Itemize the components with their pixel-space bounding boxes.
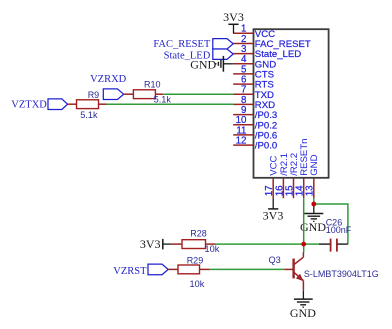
pin 12 /P0.0	[233, 136, 277, 152]
port FAC_RESET	[153, 39, 233, 51]
pin 14 RESETn	[295, 138, 311, 198]
svg-text:5.1k: 5.1k	[154, 95, 172, 105]
svg-text:10k: 10k	[190, 279, 205, 289]
capacitor C26	[304, 217, 352, 251]
ground GND (pin 13)	[300, 204, 326, 234]
wire node to C26 right side	[314, 204, 348, 244]
svg-text:R28: R28	[190, 229, 207, 239]
svg-text:VZTXD: VZTXD	[11, 99, 47, 110]
wire pin 13 to node	[313, 198, 315, 204]
pin 13 GND	[305, 154, 321, 198]
junction node RESETn	[301, 242, 306, 247]
svg-text:5.1k: 5.1k	[80, 110, 98, 120]
power 3V3 top	[223, 10, 244, 34]
power 3V3 (R28)	[140, 237, 172, 251]
pin 5 CTS	[233, 64, 274, 80]
wire R29 to Q3 base	[210, 268, 284, 270]
pin 17 VCC	[264, 155, 280, 198]
pin 10 /P0.2	[233, 115, 277, 131]
transistor Q3	[269, 244, 379, 291]
svg-text:S-LMBT3904LT1G: S-LMBT3904LT1G	[304, 269, 379, 279]
svg-text:3V3: 3V3	[263, 209, 284, 223]
junction node pin13/C26/GND	[311, 202, 316, 207]
pin 15 /R2.2	[284, 153, 300, 198]
ground GND (Q3 emitter)	[290, 291, 316, 320]
svg-text:13: 13	[305, 185, 316, 196]
pin 7 TXD	[233, 85, 274, 101]
svg-text:GND: GND	[190, 57, 216, 71]
pin 9 /P0.3	[233, 105, 277, 121]
pin 2 FAC_RESET	[233, 34, 311, 50]
port VZRST	[113, 264, 168, 277]
pin 1 VCC	[233, 24, 275, 40]
svg-text:GND: GND	[309, 154, 320, 175]
svg-text:Q3: Q3	[269, 255, 281, 265]
svg-text:3V3: 3V3	[223, 10, 244, 24]
svg-text:R10: R10	[144, 79, 161, 89]
wire R9 to pin 8	[107, 103, 234, 105]
svg-text:/P0.0: /P0.0	[255, 141, 277, 152]
resistor R29	[168, 255, 210, 288]
svg-text:10k: 10k	[205, 244, 220, 254]
port VZRXD	[90, 74, 127, 100]
svg-text:VZRST: VZRST	[113, 266, 147, 277]
wire pin 14 / RESETn net	[303, 198, 305, 244]
pin 6 RTS	[233, 75, 274, 91]
pin 16 /R2.1	[274, 153, 290, 198]
svg-text:3V3: 3V3	[140, 237, 161, 251]
svg-text:R9: R9	[88, 90, 100, 100]
svg-text:R29: R29	[187, 255, 204, 265]
resistor R10	[124, 79, 172, 104]
svg-text:GND: GND	[290, 306, 316, 320]
svg-text:100nF: 100nF	[326, 225, 352, 235]
svg-text:12: 12	[236, 136, 247, 147]
pin 3 State_LED	[233, 44, 301, 60]
ground GND (pin 4)	[190, 56, 233, 72]
svg-text:FAC_RESET: FAC_RESET	[153, 39, 211, 50]
power 3V3 (pin 17)	[263, 198, 284, 222]
pin 8 RXD	[233, 95, 275, 111]
wire R28 to RESETn node	[216, 243, 304, 245]
wire R10 to pin 7	[163, 93, 233, 95]
IC U1 body	[254, 29, 329, 178]
pin 4 GND	[233, 54, 276, 70]
port VZTXD	[11, 99, 67, 111]
pin 11 /P0.6	[233, 125, 277, 141]
resistor R9	[68, 90, 107, 120]
resistor R28	[172, 229, 220, 254]
port State_LED	[164, 49, 234, 61]
svg-text:VZRXD: VZRXD	[90, 74, 127, 85]
